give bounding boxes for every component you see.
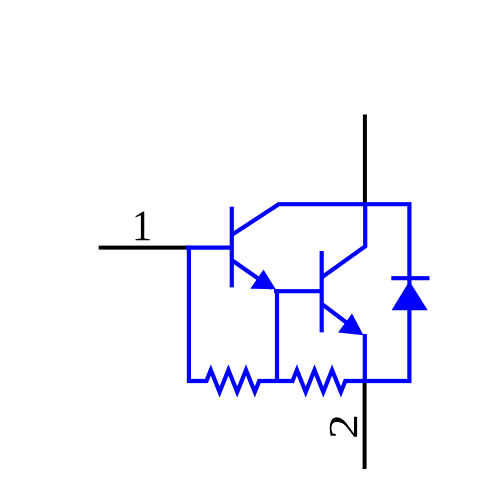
svg-text:2: 2 <box>320 414 366 439</box>
svg-text:1: 1 <box>132 202 152 250</box>
